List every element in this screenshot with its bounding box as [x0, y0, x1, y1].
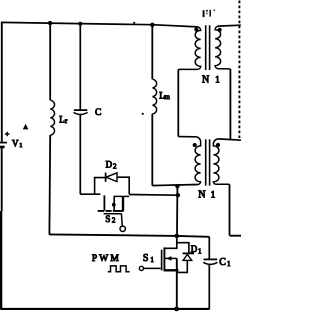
- wire secondary top to output edge: [218, 24, 241, 27]
- node junction dot at switch-node vertical top: [175, 184, 179, 188]
- wire C lower lead down to clamp branch: [79, 115, 81, 194]
- switch S2 source stub: [103, 195, 105, 210]
- diode D2 right leg: [117, 177, 129, 194]
- wire clamp branch right to switch node: [129, 194, 178, 197]
- wire left vertical from top rail to V1: [1, 22, 3, 142]
- transformer T2 primary winding N1 (bottom left): [152, 137, 200, 186]
- svg-text:r: r: [65, 117, 68, 125]
- capacitor C: [74, 109, 87, 111]
- node stray dot left of Lm bottom: [142, 113, 144, 115]
- switch S2 gate line: [104, 213, 122, 215]
- transformer T1 core: [206, 25, 210, 70]
- wire S1 gate lead: [144, 267, 161, 269]
- switch S1 gate bar: [161, 250, 163, 271]
- svg-text:PWM: PWM: [92, 254, 121, 264]
- diode D1 top tap: [177, 243, 189, 253]
- svg-text:L: L: [59, 115, 64, 125]
- transformer T label mark: [203, 10, 215, 18]
- wire Lm lower lead: [151, 114, 153, 186]
- wire mid rail (switch node): [49, 234, 209, 236]
- transformer T2 core: [206, 139, 210, 185]
- inductor Lr: [50, 100, 54, 135]
- node current arrow near V1: [23, 124, 29, 130]
- svg-text:C: C: [219, 257, 226, 268]
- svg-text:V: V: [12, 138, 19, 148]
- wire bottom rail: [1, 308, 210, 310]
- switch S1 channel bar: [163, 247, 165, 271]
- svg-text:1: 1: [198, 247, 202, 255]
- svg-text:N: N: [198, 190, 205, 201]
- node polarity dot secondary top: [218, 28, 222, 32]
- wire vertical from winding bottom node down to mid rail: [176, 186, 178, 236]
- node speck on top rail: [133, 22, 135, 24]
- svg-text:D: D: [106, 159, 113, 169]
- node junction dot C top: [78, 22, 82, 26]
- svg-text:2: 2: [112, 217, 116, 225]
- capacitor C1 top lead: [208, 237, 210, 259]
- node polarity dot primary top: [194, 28, 198, 32]
- transformer T2 secondary winding (bottom right): [213, 139, 229, 184]
- inductor Lm: [153, 79, 157, 114]
- wire V1 minus down left edge: [1, 148, 3, 211]
- node PWM pulse icon: [108, 266, 130, 272]
- node junction dot clamp wire: [176, 193, 180, 197]
- wire Lr lower lead down to mid rail: [48, 135, 51, 235]
- wire C branch upper lead: [79, 24, 81, 110]
- wire top rail from V1+ to transformer primary: [1, 22, 197, 27]
- switch S1 gate terminal circle: [139, 266, 143, 270]
- svg-text:1: 1: [211, 189, 216, 199]
- node polarity dot lower primary: [193, 143, 197, 147]
- switch S2 drain stub: [122, 196, 124, 211]
- svg-text:m: m: [164, 93, 170, 101]
- wire vertical between primary windings: [177, 69, 179, 136]
- svg-text:1: 1: [215, 74, 220, 84]
- wire secondary bottom down to second winding: [229, 69, 231, 140]
- wire S2 gate lead: [120, 214, 123, 226]
- node polarity dot lower secondary: [216, 143, 220, 147]
- wire into lower primary winding: [178, 136, 195, 138]
- diode D2 left leg: [95, 178, 106, 194]
- node + polarity mark of V1: [5, 132, 10, 137]
- node junction dot S1 source on bottom rail: [174, 307, 179, 312]
- node junction dot Lr top: [48, 21, 52, 25]
- diode D2 cathode bar: [105, 173, 107, 182]
- wire S1 right vertical to bottom rail: [176, 258, 178, 309]
- svg-text:S: S: [143, 253, 149, 264]
- diode D2 triangle: [106, 173, 117, 182]
- diode D1 bottom lead: [177, 260, 187, 272]
- svg-text:1: 1: [19, 142, 22, 149]
- switch S1 drain stub: [165, 236, 177, 248]
- dashed output cut line: [238, 1, 240, 139]
- svg-text:2: 2: [113, 162, 117, 170]
- node junction dot Lm top: [150, 23, 154, 27]
- source V1 battery plates: [0, 142, 7, 144]
- wire Lm branch upper lead: [151, 25, 153, 79]
- wire Lr branch upper lead: [49, 23, 51, 100]
- switch S1 body stub with arrow: [165, 257, 177, 259]
- node junction dot S1 drain on mid rail: [175, 234, 180, 239]
- switch S2 channel segments: [98, 210, 123, 212]
- svg-text:S: S: [105, 214, 110, 224]
- svg-text:D: D: [191, 244, 198, 254]
- switch S2 body stub with dot: [113, 196, 115, 210]
- wire S2 bridge to drain: [114, 195, 130, 197]
- diode D1 triangle: [183, 254, 192, 260]
- capacitor C1 plates: [204, 258, 218, 260]
- switch S1 source stub: [165, 269, 178, 271]
- transformer T1 secondary winding (top right): [215, 26, 230, 69]
- wire clamp branch left: [80, 193, 100, 195]
- node S2 gate terminal circle: [120, 226, 125, 231]
- svg-text:N: N: [202, 75, 209, 86]
- svg-text:1: 1: [150, 256, 154, 264]
- transformer T1 primary winding N1 (top left): [178, 27, 200, 70]
- wire lower secondary bottom right: [229, 184, 231, 235]
- svg-text:C: C: [95, 108, 101, 118]
- diode D1 cathode bar: [183, 252, 194, 254]
- wire from Lm bottom to transformer winding bottom: [152, 184, 197, 185]
- wire lower secondary top to output edge: [219, 139, 241, 140]
- capacitor C1 bottom lead: [208, 265, 210, 310]
- svg-text:1: 1: [227, 260, 231, 268]
